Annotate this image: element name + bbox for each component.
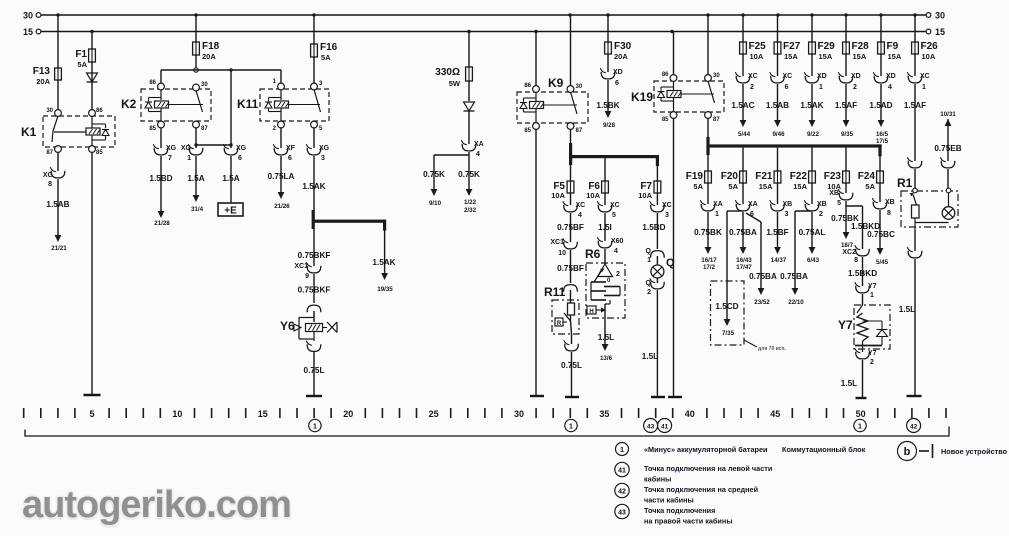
svg-text:R11: R11 bbox=[544, 285, 566, 299]
svg-text:Y7: Y7 bbox=[868, 283, 877, 290]
svg-text:9/10: 9/10 bbox=[429, 200, 442, 207]
wire K2 pin85 to XG7 bbox=[160, 128, 162, 149]
svg-text:2: 2 bbox=[616, 271, 620, 278]
connector Y7 pin1 bbox=[856, 286, 870, 293]
fuse F16 bbox=[313, 43, 315, 58]
stub to F6 bbox=[604, 158, 606, 181]
svg-text:XC1: XC1 bbox=[550, 239, 564, 246]
wire 1.5AB under F27 bbox=[777, 84, 779, 120]
svg-text:0.75BA: 0.75BA bbox=[780, 272, 808, 281]
connector XC pin2 under F25 bbox=[736, 76, 750, 83]
wire 1.5BK to 9/28 bbox=[607, 80, 609, 111]
svg-text:Y7: Y7 bbox=[838, 318, 853, 332]
svg-text:5: 5 bbox=[90, 409, 95, 419]
svg-text:9/35: 9/35 bbox=[841, 131, 854, 138]
svg-text:1.5AK: 1.5AK bbox=[372, 258, 395, 267]
ground below K1 bbox=[84, 394, 101, 396]
wire K19 pin86 column bbox=[673, 32, 675, 76]
svg-text:XC: XC bbox=[576, 202, 586, 209]
svg-text:1: 1 bbox=[715, 211, 719, 218]
svg-text:5/45: 5/45 bbox=[876, 259, 889, 266]
svg-text:X60: X60 bbox=[611, 238, 624, 245]
svg-text:7/35: 7/35 bbox=[722, 330, 735, 337]
svg-text:F30: F30 bbox=[614, 41, 632, 52]
svg-text:Q: Q bbox=[646, 248, 652, 255]
wire F13 column bbox=[57, 15, 59, 110]
connector XC pin3 bbox=[651, 205, 665, 212]
wire F23 to XB5 bbox=[845, 183, 847, 193]
wire 0.75BC to 5/45 bbox=[879, 210, 881, 248]
fuse F7 bbox=[656, 180, 658, 194]
connector Q pin2 bbox=[656, 278, 658, 283]
svg-text:F18: F18 bbox=[202, 41, 220, 52]
svg-text:Q: Q bbox=[646, 280, 652, 287]
svg-text:8: 8 bbox=[887, 210, 891, 217]
svg-text:15A: 15A bbox=[819, 52, 833, 61]
svg-text:b: b bbox=[904, 446, 911, 458]
svg-text:1: 1 bbox=[647, 257, 651, 264]
wire 1.5BF to 14/37 bbox=[777, 212, 779, 247]
svg-text:F21: F21 bbox=[755, 171, 773, 182]
connector XD pin6 bbox=[601, 72, 615, 79]
net 15 bus (second horizontal) bbox=[40, 31, 929, 33]
svg-text:86: 86 bbox=[662, 72, 669, 78]
wire 0.75BK to 18/7 bbox=[845, 201, 847, 232]
svg-text:43: 43 bbox=[618, 510, 626, 517]
svg-text:2: 2 bbox=[870, 359, 874, 366]
connector X60 pin4 bbox=[598, 241, 612, 248]
svg-text:0.75BKF: 0.75BKF bbox=[298, 286, 331, 295]
ground below K19 bbox=[668, 396, 682, 398]
svg-text:0.75EB: 0.75EB bbox=[934, 144, 961, 153]
connector on 0.75EB wire bbox=[941, 161, 955, 168]
svg-text:1/22: 1/22 bbox=[464, 199, 477, 206]
svg-text:1.5A: 1.5A bbox=[222, 174, 239, 183]
svg-text:1.5AK: 1.5AK bbox=[302, 182, 325, 191]
svg-text:20A: 20A bbox=[36, 77, 50, 86]
svg-text:6/43: 6/43 bbox=[807, 257, 820, 264]
svg-text:2: 2 bbox=[853, 84, 857, 91]
svg-text:87: 87 bbox=[713, 117, 720, 123]
svg-text:18/7: 18/7 bbox=[841, 242, 854, 249]
svg-text:2/32: 2/32 bbox=[464, 207, 477, 214]
fuse F9 column bbox=[880, 15, 882, 42]
wire K19 pin85 to ground bbox=[673, 118, 675, 396]
ground point markers 43/41 bbox=[644, 419, 658, 433]
svg-text:30: 30 bbox=[935, 11, 945, 21]
connector XD pin4 under F9 bbox=[874, 76, 888, 83]
wire 0.75AL to 6/43 bbox=[811, 212, 813, 247]
svg-text:R: R bbox=[557, 321, 562, 327]
svg-text:autogeriko.com: autogeriko.com bbox=[22, 484, 291, 526]
svg-text:16/5: 16/5 bbox=[876, 131, 889, 138]
svg-text:15A: 15A bbox=[853, 52, 867, 61]
svg-text:5A: 5A bbox=[693, 182, 703, 191]
svg-text:F27: F27 bbox=[783, 41, 801, 52]
svg-text:1.5BKD: 1.5BKD bbox=[848, 269, 877, 278]
fuse F13 bbox=[57, 67, 59, 81]
wire 1.5A to +E bbox=[230, 156, 232, 203]
wire 1.5L to 13/6 bbox=[604, 318, 606, 344]
svg-text:F28: F28 bbox=[852, 41, 870, 52]
svg-text:Y6: Y6 bbox=[280, 319, 295, 333]
wire 1.5BD to 21/28 bbox=[160, 156, 162, 211]
coordinate ruler bbox=[24, 408, 946, 418]
svg-text:0.75K: 0.75K bbox=[458, 170, 480, 179]
connector XC pin4 bbox=[564, 205, 578, 212]
connector XC2 pin8 bbox=[856, 249, 870, 256]
wire K9 pin85 to ground bbox=[535, 129, 537, 395]
svg-text:XA: XA bbox=[474, 141, 484, 148]
legend symbol 42 bbox=[615, 483, 629, 497]
svg-text:0.75AL: 0.75AL bbox=[799, 228, 826, 237]
svg-text:15: 15 bbox=[23, 27, 33, 37]
svg-text:Точка подключения на средней: Точка подключения на средней bbox=[644, 485, 758, 494]
svg-text:20: 20 bbox=[343, 409, 353, 419]
relay K2 bbox=[141, 89, 211, 121]
svg-text:87: 87 bbox=[201, 126, 208, 132]
svg-text:XB: XB bbox=[885, 199, 895, 206]
svg-text:1: 1 bbox=[870, 292, 874, 299]
svg-text:85: 85 bbox=[149, 126, 156, 132]
svg-text:19/35: 19/35 bbox=[377, 286, 393, 293]
distribution bar (F5-F7 feed) bbox=[569, 143, 572, 165]
wire 0.75L to ground bbox=[571, 352, 573, 396]
wire link K2-86 to K11 pin1 (horizontal y=70) bbox=[161, 69, 281, 71]
svg-text:XC: XC bbox=[748, 73, 758, 80]
wire 1.5AK down to bus bbox=[313, 156, 315, 211]
svg-text:F23: F23 bbox=[824, 171, 842, 182]
svg-text:4: 4 bbox=[476, 151, 480, 158]
svg-text:H: H bbox=[589, 309, 593, 315]
svg-text:1.5AF: 1.5AF bbox=[835, 101, 857, 110]
wire 1.5I bbox=[604, 213, 606, 241]
svg-text:22/10: 22/10 bbox=[788, 299, 804, 306]
svg-text:2: 2 bbox=[750, 84, 754, 91]
terminal +E box bbox=[218, 203, 243, 216]
svg-text:86: 86 bbox=[96, 108, 103, 114]
wire F21 to XB3 bbox=[777, 183, 779, 204]
wire 1.5AD under F9 bbox=[880, 84, 882, 120]
svg-text:1.5BD: 1.5BD bbox=[642, 223, 665, 232]
svg-text:5/44: 5/44 bbox=[738, 131, 751, 138]
svg-text:4: 4 bbox=[614, 248, 618, 255]
svg-text:0.75L: 0.75L bbox=[304, 366, 325, 375]
svg-text:«Минус» аккумуляторной батареи: «Минус» аккумуляторной батареи bbox=[644, 445, 768, 454]
svg-text:XD: XD bbox=[886, 73, 896, 80]
node K1 pin87 / connector XG pin8 bbox=[57, 152, 59, 171]
distribution bar (F19-F24 feed) bbox=[706, 137, 709, 155]
svg-text:1: 1 bbox=[922, 84, 926, 91]
svg-text:1.5A: 1.5A bbox=[187, 174, 204, 183]
svg-text:87: 87 bbox=[46, 150, 53, 156]
svg-text:1: 1 bbox=[858, 424, 862, 431]
wire F16 column bbox=[313, 15, 315, 44]
connector XD pin1 under F29 bbox=[805, 76, 819, 83]
wire XG6 column from K11 link down bbox=[230, 70, 232, 148]
connector Q pin1 bbox=[651, 251, 665, 258]
ground below R11 bbox=[565, 396, 579, 398]
svg-text:7: 7 bbox=[168, 155, 172, 162]
svg-text:45: 45 bbox=[770, 409, 780, 419]
node F18 to K2/K11 link bbox=[195, 55, 197, 70]
svg-text:17/2: 17/2 bbox=[703, 264, 716, 271]
svg-text:86: 86 bbox=[524, 83, 531, 89]
svg-text:1.5L: 1.5L bbox=[841, 379, 857, 388]
svg-text:F16: F16 bbox=[320, 42, 338, 53]
svg-text:15: 15 bbox=[258, 409, 268, 419]
svg-text:Новое устройство: Новое устройство bbox=[941, 447, 1008, 456]
svg-text:0.75BA: 0.75BA bbox=[749, 272, 777, 281]
svg-text:5W: 5W bbox=[449, 79, 461, 88]
fuse F25 column bbox=[742, 15, 744, 42]
svg-text:4: 4 bbox=[578, 212, 582, 219]
wire K9 pin87 to distribution bar bbox=[570, 129, 572, 144]
wire 0.75K to 9/10 bbox=[433, 155, 435, 189]
svg-text:0.75K: 0.75K bbox=[423, 170, 445, 179]
svg-text:XC: XC bbox=[920, 73, 930, 80]
connector XD pin2 under F28 bbox=[839, 76, 853, 83]
svg-text:30: 30 bbox=[23, 11, 33, 21]
svg-text:85: 85 bbox=[96, 150, 103, 156]
wire 0.75BK to 16/17 bbox=[707, 212, 709, 247]
fuse F6 bbox=[604, 180, 606, 194]
svg-text:Коммутационный блок: Коммутационный блок bbox=[782, 445, 866, 454]
svg-text:10A: 10A bbox=[922, 52, 936, 61]
svg-text:0.75BC: 0.75BC bbox=[867, 230, 895, 239]
connector XC pin6 under F27 bbox=[771, 76, 785, 83]
svg-text:10A: 10A bbox=[750, 52, 764, 61]
wire 1.5A to 31/4 bbox=[195, 156, 197, 195]
diode under F1 bbox=[87, 73, 98, 82]
svg-text:85: 85 bbox=[662, 117, 669, 123]
wire 1.5AK under F29 bbox=[811, 84, 813, 120]
svg-text:8: 8 bbox=[48, 181, 52, 188]
wire F30 column bbox=[607, 15, 609, 42]
wire 1.5AB bbox=[57, 179, 59, 235]
svg-text:5A: 5A bbox=[728, 182, 738, 191]
relay K19 bbox=[654, 81, 724, 112]
wire 0.75K to 1/22 2/32 bbox=[468, 155, 470, 189]
svg-text:1.5AK: 1.5AK bbox=[800, 101, 823, 110]
wire 1.5L to ground (Q) bbox=[656, 290, 658, 396]
svg-text:F29: F29 bbox=[818, 41, 836, 52]
wire 0.75LA to 21/26 bbox=[280, 156, 282, 192]
fuse F22 bbox=[811, 170, 813, 184]
connector above Y6 bbox=[307, 305, 321, 312]
wire 1.5BD bbox=[656, 213, 658, 249]
svg-text:XA: XA bbox=[713, 201, 723, 208]
svg-text:43: 43 bbox=[647, 424, 655, 431]
wire R1 to ground bbox=[914, 230, 916, 251]
svg-text:8: 8 bbox=[854, 257, 858, 264]
ground below K9 bbox=[530, 395, 544, 397]
svg-text:50: 50 bbox=[856, 409, 866, 419]
svg-text:XG: XG bbox=[236, 145, 247, 152]
svg-text:1.5BD: 1.5BD bbox=[149, 174, 172, 183]
svg-text:15A: 15A bbox=[759, 182, 773, 191]
fuse F19 bbox=[707, 170, 709, 184]
relay K1 bbox=[43, 116, 115, 147]
svg-text:3: 3 bbox=[321, 155, 325, 162]
wire K11 pin1 drop from link bbox=[280, 70, 282, 85]
svg-text:0.75LA: 0.75LA bbox=[268, 172, 295, 181]
svg-text:1: 1 bbox=[569, 424, 573, 431]
wire diagonal branch XA6 to 23/52 bbox=[746, 213, 761, 222]
option box 1.5CD bbox=[711, 281, 745, 345]
svg-text:0.75BKF: 0.75BKF bbox=[298, 251, 331, 260]
svg-text:17/5: 17/5 bbox=[876, 138, 889, 145]
watermark autogeriko.com bbox=[0, 0, 1, 1]
svg-text:XC: XC bbox=[783, 73, 793, 80]
svg-text:K1: K1 bbox=[21, 125, 37, 139]
svg-text:1.5BF: 1.5BF bbox=[766, 228, 788, 237]
connector below Y6 bbox=[307, 344, 321, 351]
svg-text:XG: XG bbox=[319, 145, 330, 152]
svg-text:1.5L: 1.5L bbox=[642, 352, 658, 361]
svg-text:6: 6 bbox=[785, 84, 789, 91]
wire branch XB5 to XC2-8 bbox=[846, 205, 863, 207]
wire 330ohm column bbox=[468, 32, 470, 68]
svg-text:15A: 15A bbox=[784, 52, 798, 61]
svg-text:F20: F20 bbox=[721, 171, 739, 182]
svg-text:для 70 исп.: для 70 исп. bbox=[758, 346, 786, 352]
wire 1.5BKD to Y7 bbox=[862, 257, 864, 286]
svg-text:21/26: 21/26 bbox=[274, 203, 290, 210]
svg-text:9/28: 9/28 bbox=[603, 122, 616, 129]
svg-text:23/52: 23/52 bbox=[754, 299, 770, 306]
svg-text:16/17: 16/17 bbox=[701, 257, 717, 264]
svg-text:R1: R1 bbox=[897, 176, 913, 190]
leader to note text bbox=[744, 340, 757, 347]
wire 0.75BA to 16/43 bbox=[742, 212, 744, 247]
svg-text:0.75BF: 0.75BF bbox=[557, 223, 584, 232]
svg-text:14/37: 14/37 bbox=[771, 257, 787, 264]
wire 1.5L to ground (Y7) bbox=[862, 360, 864, 397]
wire K1 pin85 to ground bbox=[91, 152, 93, 394]
svg-text:10: 10 bbox=[558, 250, 566, 257]
svg-text:части кабины: части кабины bbox=[644, 496, 694, 505]
svg-text:10A: 10A bbox=[551, 191, 565, 200]
wire K11 pin2 to XF6 bbox=[280, 128, 282, 149]
svg-text:F13: F13 bbox=[33, 66, 51, 77]
wire 1.5AF under F28 bbox=[845, 84, 847, 120]
svg-text:кабины: кабины bbox=[644, 475, 671, 484]
svg-text:3: 3 bbox=[665, 212, 669, 219]
svg-text:на правой части кабины: на правой части кабины bbox=[644, 517, 733, 526]
svg-text:30: 30 bbox=[514, 409, 524, 419]
fuse F21 bbox=[777, 170, 779, 184]
svg-text:3: 3 bbox=[785, 211, 789, 218]
svg-text:F25: F25 bbox=[749, 41, 767, 52]
svg-text:1.5AB: 1.5AB bbox=[46, 200, 69, 209]
svg-text:XF: XF bbox=[286, 145, 296, 152]
svg-text:330Ω: 330Ω bbox=[435, 67, 460, 78]
fuse F23 bbox=[845, 170, 847, 184]
fuse F18 bbox=[195, 41, 197, 56]
ground point marker 1 (below Y6) bbox=[309, 419, 321, 431]
svg-text:42: 42 bbox=[910, 424, 918, 431]
svg-text:85: 85 bbox=[524, 128, 531, 134]
svg-text:9/46: 9/46 bbox=[772, 131, 785, 138]
svg-text:XC: XC bbox=[662, 202, 672, 209]
connector above R11 bbox=[564, 285, 578, 292]
fuse F20 bbox=[742, 170, 744, 184]
fuse F28 column bbox=[845, 15, 847, 42]
svg-text:XD: XD bbox=[613, 69, 623, 76]
svg-text:1.5AB: 1.5AB bbox=[766, 101, 789, 110]
svg-text:XD: XD bbox=[817, 73, 827, 80]
fuse F5 bbox=[570, 180, 572, 194]
ground below Q bbox=[651, 396, 665, 398]
svg-text:5: 5 bbox=[612, 212, 616, 219]
svg-text:31/4: 31/4 bbox=[191, 206, 204, 213]
svg-text:21/21: 21/21 bbox=[51, 245, 67, 252]
wire 0.75BKF / XC1-9 bbox=[313, 229, 315, 266]
legend symbol 43 bbox=[615, 504, 629, 518]
svg-text:6: 6 bbox=[238, 155, 242, 162]
svg-text:K2: K2 bbox=[121, 97, 137, 111]
svg-text:F22: F22 bbox=[790, 171, 808, 182]
svg-text:86: 86 bbox=[149, 80, 156, 86]
stub to F5 bbox=[570, 165, 572, 181]
svg-text:F1: F1 bbox=[75, 49, 87, 60]
svg-text:42: 42 bbox=[618, 489, 626, 496]
legend symbol 1 (battery minus) bbox=[616, 443, 629, 456]
svg-text:87: 87 bbox=[576, 128, 583, 134]
lamp Q bbox=[651, 265, 664, 278]
svg-text:K9: K9 bbox=[548, 76, 564, 90]
svg-text:16/43: 16/43 bbox=[736, 257, 752, 264]
svg-text:XB: XB bbox=[829, 190, 839, 197]
svg-text:40: 40 bbox=[685, 409, 695, 419]
wire F22 to XB2 bbox=[811, 183, 813, 204]
svg-text:XG: XG bbox=[166, 145, 177, 152]
svg-text:9/22: 9/22 bbox=[807, 131, 820, 138]
wire K19 pin30 column bbox=[707, 15, 709, 75]
distribution bar (Y6 feed) bbox=[312, 210, 315, 229]
relay K9 bbox=[517, 92, 588, 123]
fuse F30 bbox=[607, 41, 609, 55]
svg-text:1.5AC: 1.5AC bbox=[731, 101, 754, 110]
relay K11 bbox=[260, 89, 329, 121]
wire K9 pin86 column bbox=[535, 32, 537, 87]
resistor 330 Ohm 5W bbox=[468, 66, 470, 82]
wire branch XA6 to 1.5CD box bbox=[727, 210, 743, 212]
svg-text:Точка подключения: Точка подключения bbox=[644, 506, 715, 515]
connector Y7 pin2 bbox=[856, 352, 870, 359]
svg-text:XD: XD bbox=[851, 73, 861, 80]
fuse F26 column bbox=[914, 15, 916, 42]
switching unit bracket bbox=[25, 427, 949, 437]
fuse F27 column bbox=[777, 15, 779, 42]
fuse F1 bbox=[91, 48, 93, 63]
svg-text:15: 15 bbox=[935, 27, 945, 37]
connector XC pin1 under F26 bbox=[908, 76, 922, 83]
svg-text:1.5I: 1.5I bbox=[598, 223, 612, 232]
svg-text:0.75BA: 0.75BA bbox=[729, 228, 757, 237]
wire 0.75L to ground bbox=[313, 352, 315, 395]
svg-text:XG: XG bbox=[181, 145, 192, 152]
svg-text:41: 41 bbox=[618, 468, 626, 475]
svg-text:15A: 15A bbox=[888, 52, 902, 61]
svg-text:F24: F24 bbox=[858, 171, 876, 182]
connector below R11 bbox=[571, 334, 573, 344]
ground below Y7 bbox=[856, 397, 867, 399]
node split 0.75K branches bbox=[468, 152, 470, 155]
svg-text:5A: 5A bbox=[321, 53, 331, 62]
connector on F26 column bbox=[908, 161, 922, 168]
